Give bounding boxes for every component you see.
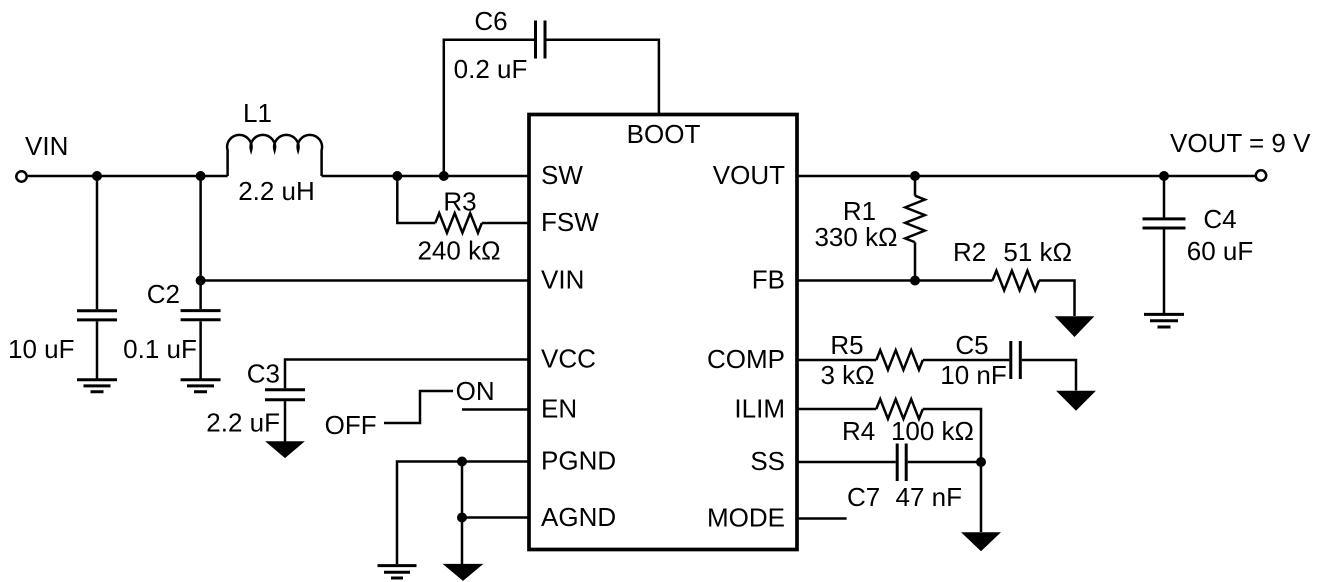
svg-text:FSW: FSW (541, 207, 599, 237)
ground AGND triangle (444, 564, 482, 580)
svg-text:VIN: VIN (541, 265, 584, 295)
resistor R3 (435, 213, 482, 233)
ground under C2 (181, 380, 221, 392)
inductor L1 (227, 135, 322, 176)
svg-text:C3: C3 (247, 359, 280, 389)
wire L1 to SW pin (322, 175, 528, 178)
junction VOUT rail at C4 (1159, 171, 1169, 181)
resistor R1 (905, 196, 925, 243)
svg-text:R4: R4 (842, 416, 875, 446)
wire C6 branch up from SW (444, 40, 534, 176)
svg-text:10 uF: 10 uF (8, 334, 75, 364)
svg-text:BOOT: BOOT (627, 119, 701, 149)
svg-text:FB: FB (752, 265, 785, 295)
wire R2 to ground (1039, 281, 1075, 317)
IC U1 body (529, 115, 797, 550)
resistor R1 leads (914, 176, 917, 281)
svg-text:VOUT: VOUT (713, 160, 785, 190)
ground under C4 (1144, 314, 1184, 327)
wire R5 to C5 (923, 359, 1009, 362)
svg-text:10 nF: 10 nF (940, 360, 1007, 390)
svg-text:100 kΩ: 100 kΩ (891, 416, 974, 446)
svg-text:OFF: OFF (325, 410, 377, 440)
switch ON/OFF (384, 391, 453, 423)
capacitor C1 plates (77, 311, 117, 320)
wire AGND pin stub (462, 516, 528, 519)
svg-text:R3: R3 (443, 187, 476, 217)
wire FB to R2 (797, 279, 993, 282)
svg-text:C7: C7 (847, 482, 880, 512)
svg-text:3 kΩ: 3 kΩ (820, 360, 874, 390)
capacitor C2 top lead (199, 176, 202, 309)
svg-text:C4: C4 (1203, 204, 1236, 234)
wire C7 to SS node (908, 461, 981, 464)
wire VCC to C3 (285, 360, 528, 389)
svg-text:0.2 uF: 0.2 uF (454, 54, 528, 84)
terminal VIN input port (16, 171, 26, 181)
svg-text:R2: R2 (953, 237, 986, 267)
svg-text:VOUT = 9 V: VOUT = 9 V (1170, 128, 1311, 158)
wire C2 node to VIN pin (201, 279, 528, 282)
wire MODE pin stub (797, 517, 847, 520)
svg-text:ON: ON (456, 376, 495, 406)
capacitor C4 bottom lead (1163, 230, 1166, 314)
ground under R2 (1056, 317, 1093, 337)
capacitor C6 plates (536, 21, 546, 59)
terminal VOUT output port (1256, 170, 1266, 180)
ground under C1 (77, 380, 117, 392)
resistor R4 (876, 399, 923, 419)
ground under C5 (1057, 391, 1094, 410)
capacitor C2 bottom lead (199, 321, 202, 379)
svg-text:SS: SS (750, 446, 785, 476)
svg-text:R5: R5 (830, 330, 863, 360)
svg-text:C5: C5 (955, 330, 988, 360)
junction VOUT rail at R1 (910, 171, 920, 181)
svg-text:51 kΩ: 51 kΩ (1003, 237, 1072, 267)
svg-text:PGND: PGND (541, 446, 616, 476)
svg-text:C2: C2 (147, 279, 180, 309)
ground under C3 (267, 442, 304, 458)
wire R4 down to SS node (923, 409, 981, 532)
capacitor C7 plates (897, 444, 906, 482)
junction VIN pin node at C2 (196, 276, 206, 286)
wire COMP to R5 (797, 359, 876, 362)
svg-text:2.2 uH: 2.2 uH (238, 176, 315, 206)
ground under PGND (378, 566, 417, 578)
capacitor C2 plates (181, 311, 221, 320)
ground under SS (962, 533, 999, 551)
svg-text:COMP: COMP (707, 344, 785, 374)
junction SW node at R3 branch (392, 171, 402, 181)
wire C6 to BOOT pin (547, 40, 659, 114)
wire R3 to FSW pin (482, 222, 528, 225)
wire PGND net (397, 462, 528, 565)
svg-text:VCC: VCC (541, 344, 596, 374)
svg-text:MODE: MODE (707, 503, 785, 533)
capacitor C5 plates (1011, 341, 1021, 379)
junction SW node at C6 branch (439, 171, 449, 181)
svg-text:VIN: VIN (25, 131, 68, 161)
capacitor C3 bottom lead (284, 401, 287, 442)
capacitor C1 top lead (96, 176, 99, 309)
svg-text:SW: SW (541, 160, 583, 190)
resistor R5 (876, 350, 923, 370)
junction PGND node (457, 457, 467, 467)
junction AGND node (457, 513, 467, 523)
capacitor C4 plates (1143, 219, 1186, 228)
wire PGND to AGND ground (461, 462, 464, 565)
resistor R2 (993, 271, 1040, 291)
junction on VIN rail at C2 (196, 171, 206, 181)
junction SS node (976, 457, 986, 467)
wire R3 branch down from SW (397, 176, 435, 223)
capacitor C1 bottom lead (96, 322, 99, 380)
capacitor C4 top lead (1163, 176, 1166, 217)
wire EN pin stub (462, 408, 528, 411)
capacitor C3 plates (265, 390, 305, 400)
svg-text:0.1 uF: 0.1 uF (123, 334, 197, 364)
wire SS to C7 (797, 461, 896, 464)
wire ILIM to R4 (797, 408, 876, 411)
wire C5 to ground (1022, 360, 1076, 391)
svg-text:EN: EN (541, 394, 577, 424)
junction FB node at R1 (910, 276, 920, 286)
svg-text:AGND: AGND (541, 502, 616, 532)
wire VIN to L1 (28, 175, 228, 178)
svg-text:330 kΩ: 330 kΩ (814, 222, 897, 252)
svg-text:C6: C6 (474, 6, 507, 36)
svg-text:60 uF: 60 uF (1187, 236, 1254, 266)
svg-text:ILIM: ILIM (734, 394, 785, 424)
junction on VIN rail at C1 (92, 171, 102, 181)
svg-text:240 kΩ: 240 kΩ (417, 236, 500, 266)
svg-text:L1: L1 (243, 98, 272, 128)
svg-text:47 nF: 47 nF (896, 482, 963, 512)
wire VOUT rail (797, 175, 1256, 178)
svg-text:2.2 uF: 2.2 uF (206, 408, 280, 438)
